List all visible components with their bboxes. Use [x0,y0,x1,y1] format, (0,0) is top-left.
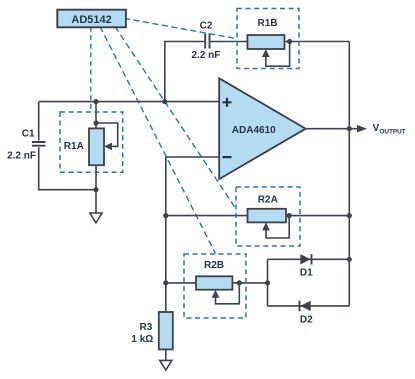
wire: D2 row [268,305,350,307]
wire: C2 branch [165,42,248,102]
node: R1A wiper junction [93,120,98,125]
svg-text:R2B: R2B [204,260,224,271]
svg-text:D1: D1 [300,268,313,279]
dashed control line to R1B [124,18,237,38]
wire: diode pair left vertical [267,259,269,306]
wire: R1B wiper loop [266,44,290,66]
node: R1B wiper junction [287,39,292,44]
dashed box R2A [236,187,300,246]
node: C2 tee on + row [162,99,167,104]
plus sign [223,98,232,107]
wire: R2B wiper loop [216,286,240,304]
dashed box R2B [184,254,246,318]
svg-text:D2: D2 [300,315,313,326]
wire: output [306,128,360,130]
svg-text:1 kΩ: 1 kΩ [131,334,153,345]
svg-text:C1: C1 [22,128,35,139]
wire: noninverting input row [39,101,220,103]
wire: R1A top branch [95,102,97,129]
diode D2 [300,301,310,311]
diode D1 [300,254,310,264]
wire: D1 row [268,258,350,260]
node: right rail / D1 row [347,257,352,262]
dashed control line to R2A [115,27,236,210]
potentiometer R2B [196,276,232,289]
node: R2A wiper junction [287,213,292,218]
capacitor C2 [205,34,209,49]
dashed box R1B [237,9,299,69]
wiper arrow R2B [212,290,220,298]
wire: R1B right to rail [285,41,350,43]
op-amp U1 ADA4610 [219,78,305,179]
wire: R2A wiper loop [266,218,289,238]
node: diode pair left junction [265,280,270,285]
svg-text:R1B: R1B [257,18,277,29]
minus sign [223,156,232,158]
wiper arrow R1A [104,143,112,151]
potentiometer R1B [247,35,284,49]
node: R2B wiper junction [237,280,242,285]
svg-text:AD5142: AD5142 [71,14,111,26]
dashed control line to R1A [90,27,92,112]
potentiometer R2A [248,209,287,223]
svg-text:ADA4610: ADA4610 [232,125,276,136]
node: C1/R1A bottom junction [93,187,98,192]
svg-text:C2: C2 [200,20,213,31]
svg-text:R3: R3 [140,322,153,333]
potentiometer R1A [89,128,104,165]
wire: R1A wiper loop [96,123,118,146]
wiper arrow R1B [262,49,270,57]
node: output junction [347,126,352,131]
capacitor C1 [32,142,46,146]
svg-text:OUTPUT: OUTPUT [379,128,405,135]
node: left rail / R2A row [163,213,168,218]
wire: inverting input row [166,156,219,158]
wire: R1A bottom to ground [95,165,97,213]
ground (left) [90,213,102,223]
wiper arrow R2A [262,222,270,230]
svg-text:2.2 nF: 2.2 nF [192,50,221,61]
wire: R2B row [166,282,268,284]
output arrow [357,125,367,133]
dashed box R1A [60,112,123,172]
resistor R3 [159,312,173,349]
svg-text:2.2 nF: 2.2 nF [7,150,36,161]
wire: C1 left branch down [39,102,96,190]
wire: left rail down [165,157,167,312]
wire: R3 bottom to ground [165,349,167,360]
svg-text:R1A: R1A [64,141,84,152]
wire: right rail [348,42,350,306]
digital pot AD5142 [57,10,126,28]
ground (bottom) [160,360,172,370]
node: left rail / R2B row [163,280,168,285]
svg-text:R2A: R2A [258,194,278,205]
wire: R2A row [166,215,349,217]
dashed control line to R2B [100,27,216,254]
node: right rail / R2A row [347,213,352,218]
node: + row / R1A junction [93,99,98,104]
